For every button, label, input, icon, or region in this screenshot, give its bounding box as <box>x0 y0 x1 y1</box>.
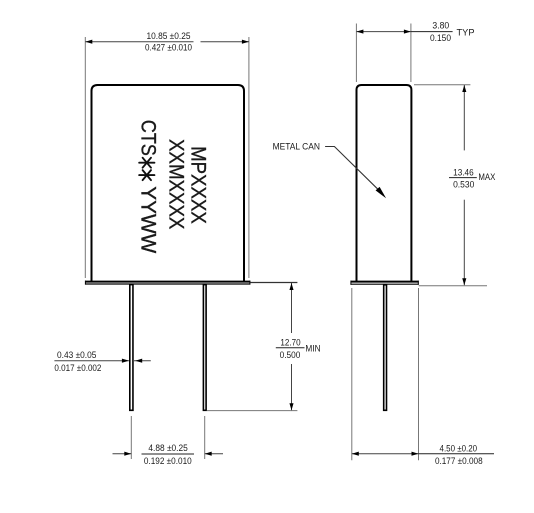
svg-text:YYWW: YYWW <box>137 186 160 253</box>
svg-text:0.017 ±0.002: 0.017 ±0.002 <box>54 363 101 374</box>
svg-text:4.50 ±0.20: 4.50 ±0.20 <box>440 444 478 455</box>
svg-text:TYP: TYP <box>457 28 475 39</box>
width dimension 10.85 extension lines <box>84 37 86 278</box>
svg-text:12.70: 12.70 <box>280 337 300 348</box>
can width dimension 3.80 extension lines <box>355 24 357 83</box>
svg-text:10.85 ±0.25: 10.85 ±0.25 <box>147 31 191 42</box>
svg-text:0.177 ±0.008: 0.177 ±0.008 <box>435 456 483 467</box>
lead spacing dimension 4.88 extension lines <box>130 416 132 459</box>
svg-text:3.80: 3.80 <box>432 20 449 31</box>
marking star 2 <box>139 170 154 180</box>
can width dimension 3.80 dimension line <box>356 31 411 33</box>
svg-text:4.88 ±0.25: 4.88 ±0.25 <box>148 443 187 454</box>
lead 2 front view <box>203 285 206 411</box>
crystal body front view <box>92 85 245 281</box>
svg-text:METAL CAN: METAL CAN <box>273 142 321 153</box>
metal can side view <box>357 85 412 281</box>
lead 1 front view <box>130 285 133 411</box>
METAL CAN leader line <box>325 147 379 191</box>
marking star 1 <box>139 158 154 168</box>
svg-text:0.192 ±0.010: 0.192 ±0.010 <box>144 456 192 467</box>
base flange front view <box>85 281 250 283</box>
svg-text:0.427 ±0.010: 0.427 ±0.010 <box>145 43 192 54</box>
svg-text:0.500: 0.500 <box>280 350 301 361</box>
svg-text:XXMXXXX: XXMXXXX <box>165 139 188 229</box>
svg-text:0.150: 0.150 <box>430 33 451 44</box>
svg-text:MIN: MIN <box>305 343 320 354</box>
lead side view <box>384 285 387 411</box>
lead length dimension 12.70 dimension line <box>291 283 293 333</box>
svg-text:13.46: 13.46 <box>453 168 474 179</box>
svg-text:MPXXXX: MPXXXX <box>187 146 210 224</box>
width dimension 10.85 dimension line <box>85 41 193 43</box>
lead length dimension 12.70 extension lines <box>251 282 298 284</box>
svg-text:0.43 ±0.05: 0.43 ±0.05 <box>57 350 96 361</box>
svg-text:MAX: MAX <box>478 172 496 183</box>
svg-text:0.530: 0.530 <box>453 180 474 191</box>
lead diameter dimension 0.43 <box>54 360 128 362</box>
lead spacing dimension 4.88 dimension line <box>113 453 132 455</box>
can height dimension 13.46 extension lines <box>414 84 470 86</box>
base width dimension 4.50 dimension line <box>352 453 419 455</box>
base flange side view <box>351 281 419 283</box>
can height dimension 13.46 dimension line <box>463 85 465 150</box>
base width dimension 4.50 extension lines <box>351 288 353 460</box>
svg-text:CTS: CTS <box>137 120 160 156</box>
